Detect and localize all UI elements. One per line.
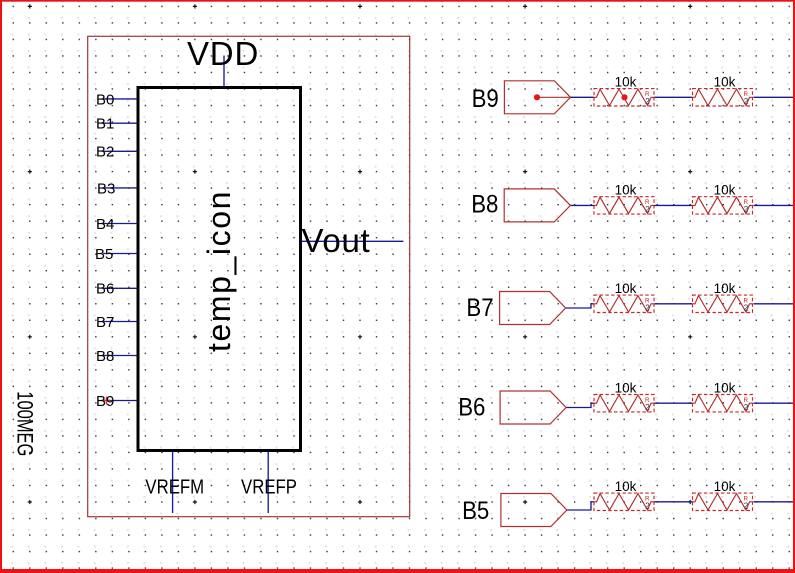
svg-text:10k: 10k <box>714 183 736 198</box>
svg-text:B7: B7 <box>96 314 114 331</box>
svg-text:Vout: Vout <box>302 222 371 259</box>
svg-text:B5: B5 <box>462 498 489 525</box>
svg-text:10k: 10k <box>714 381 736 396</box>
svg-text:B0: B0 <box>96 91 114 108</box>
svg-text:B6: B6 <box>96 281 114 298</box>
svg-text:temp_icon: temp_icon <box>201 190 237 352</box>
svg-text:100MEG: 100MEG <box>12 391 37 456</box>
svg-text:10k: 10k <box>615 479 637 494</box>
svg-text:B8: B8 <box>471 192 498 219</box>
svg-text:10k: 10k <box>714 281 736 296</box>
svg-text:B5: B5 <box>95 246 113 263</box>
svg-text:10k: 10k <box>714 479 736 494</box>
svg-text:B3: B3 <box>97 180 115 197</box>
svg-text:10k: 10k <box>615 281 637 296</box>
svg-text:B6: B6 <box>458 394 485 421</box>
svg-text:B9: B9 <box>96 393 114 410</box>
svg-text:B1: B1 <box>96 116 114 133</box>
svg-text:B8: B8 <box>96 348 114 365</box>
svg-text:10k: 10k <box>615 183 637 198</box>
svg-text:B4: B4 <box>96 216 114 233</box>
svg-text:10k: 10k <box>615 381 637 396</box>
svg-text:VDD: VDD <box>187 35 259 72</box>
svg-text:B9: B9 <box>472 86 499 113</box>
svg-text:VREFP: VREFP <box>241 475 297 498</box>
svg-text:B7: B7 <box>466 295 493 322</box>
svg-text:VREFM: VREFM <box>145 475 204 498</box>
svg-text:10k: 10k <box>714 75 736 90</box>
svg-text:B2: B2 <box>96 144 114 161</box>
svg-text:10k: 10k <box>615 75 637 90</box>
